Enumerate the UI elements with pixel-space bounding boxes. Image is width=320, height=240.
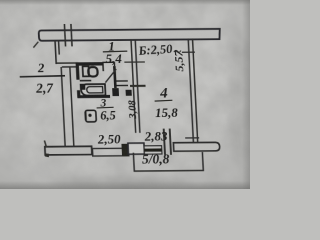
ink blob at SW bar left bottom corner [45,153,50,157]
flick at left end of SW bar [44,141,46,147]
kitchen west wall (double line) [61,67,74,148]
outer north wall bar [39,29,221,41]
edge shadow right [242,0,250,189]
double tick on north wall [64,24,72,47]
wall tick crossing divider at kitchen north wall [130,85,146,87]
step wall to divider (double line) [115,81,128,86]
junction box (white) [128,143,145,154]
bathroom block north wall [76,62,103,66]
hall west wall line 1 [55,40,56,64]
stove icon burner dot [88,114,91,117]
dim tick crossing divider [124,61,145,63]
divider wall rooms 3/4 (double line) [131,39,140,133]
bathtub inner outline [87,87,103,93]
bathroom south wall [78,95,111,98]
bathroom block outer top line to NE corner [102,62,114,66]
squiggle mark after height note [174,50,181,52]
bathroom door swing diagonal [105,69,117,83]
bathroom north wall west extension (double line) [56,63,78,67]
bathroom WC door jamb (interior) [102,62,104,71]
paper grain [0,0,250,189]
balcony door ticks [164,129,171,155]
south-east outer wall bar [173,142,219,151]
soft smudge right [228,30,252,170]
hall west wall line 2 [58,40,61,55]
stove icon left edge bar [84,112,86,120]
edge shadow bottom [0,181,250,189]
kitchen window [92,148,130,156]
toilet bowl [88,67,98,76]
room 2 fraction line [20,76,65,77]
kitchen door nib [126,90,132,96]
room 4 fraction line [155,99,173,102]
room 4 window frame [144,146,162,154]
edge shadow top [0,0,250,5]
pen flick at left end of north wall [33,42,38,48]
shelf line below toilet [80,80,92,82]
nib at bathroom SE corner [112,88,119,96]
bathroom east wall [114,66,115,88]
south-west outer wall bar [45,146,92,155]
paper mottling [0,0,250,189]
bathroom west door nib [80,84,86,90]
paper background [0,0,250,189]
bathroom west wall upper segment [76,62,80,79]
stove icon box [85,110,96,122]
right outer wall (double line) [188,39,198,146]
bathroom west wall lower segment [77,90,81,98]
bathtub outline [81,84,106,95]
soft smudge bottom center [50,176,190,188]
toilet tank [83,66,90,76]
dark wall block left of junction box [121,144,128,156]
balcony outline [133,152,203,171]
dim tick top on right wall [182,51,195,53]
dim tick bottom on right wall [185,137,199,139]
room 3 fraction line [97,106,114,109]
room 4 window glazing stripe [144,148,162,151]
room 1 fraction line [103,50,128,53]
